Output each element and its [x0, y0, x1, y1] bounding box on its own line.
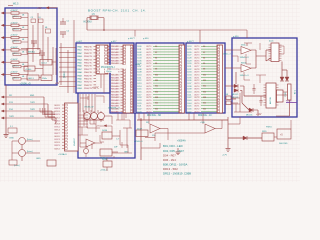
resistor R15 — [1, 59, 28, 68]
svg-text:D02/D4L - 10: D02/D4L - 10 — [198, 115, 212, 117]
svg-text:+130/47: +130/47 — [10, 59, 18, 61]
wire — [84, 110, 104, 120]
svg-text:TWR: TWR — [9, 116, 14, 118]
svg-text:+130/47: +130/47 — [10, 47, 18, 49]
module frame box F2 — [186, 43, 225, 113]
svg-text:OUT8: OUT8 — [146, 97, 152, 99]
junction — [103, 29, 142, 121]
svg-text:PB00/T0: PB00/T0 — [84, 47, 93, 49]
svg-text:OUT1: OUT1 — [194, 106, 200, 108]
wire — [225, 67, 232, 69]
wire — [87, 18, 90, 30]
svg-text:OUT8: OUT8 — [194, 97, 200, 99]
svg-text:1N54L+3: 1N54L+3 — [240, 57, 250, 59]
label MD001 c — [246, 115, 253, 117]
svg-text:+130/47: +130/47 — [10, 10, 18, 12]
label 20F — [114, 147, 118, 149]
svg-text:RB4/AN4: RB4/AN4 — [111, 85, 120, 88]
svg-text:[Intro]: [Intro] — [27, 138, 33, 141]
sheet port p.030 — [143, 38, 149, 40]
component 0D1F — [134, 128, 148, 142]
svg-text:N16: N16 — [155, 91, 158, 93]
wire — [276, 100, 290, 116]
wire — [5, 85, 7, 134]
svg-text:D06+: D06+ — [241, 45, 247, 47]
module frame box G — [232, 38, 297, 117]
svg-text:OUT1: OUT1 — [194, 49, 200, 51]
svg-text:B2/C6: B2/C6 — [55, 142, 60, 144]
sheet port p.0077 — [128, 38, 135, 40]
label +5V3A — [58, 153, 68, 156]
svg-text:PB70/T1: PB70/T1 — [84, 50, 93, 52]
capacitor C9 — [253, 84, 256, 94]
svg-text:B8/C4: B8/C4 — [55, 130, 60, 132]
wire — [199, 30, 201, 43]
label D60 R6D — [279, 143, 288, 145]
svg-text:PB70/T1: PB70/T1 — [84, 82, 93, 84]
svg-text:C08: C08 — [225, 94, 228, 96]
wire — [100, 135, 104, 142]
svg-text:PB30/T9: PB30/T9 — [84, 75, 93, 77]
ground GND f — [222, 149, 231, 157]
svg-text:+50D: +50D — [200, 122, 206, 124]
svg-text:B0/C0: B0/C0 — [55, 105, 60, 107]
svg-text:PB00/T0: PB00/T0 — [84, 79, 93, 81]
wire — [282, 62, 287, 78]
svg-text:N6: N6 — [155, 63, 157, 65]
svg-text:PB60/T8: PB60/T8 — [84, 72, 93, 74]
svg-text:x1N4L+0: x1N4L+0 — [134, 141, 143, 143]
wire — [225, 85, 234, 87]
wire — [21, 145, 23, 162]
wire — [112, 145, 132, 153]
capacitor C10 — [260, 96, 263, 106]
svg-text:N12: N12 — [155, 80, 158, 82]
svg-text:N10: N10 — [203, 74, 206, 76]
wire — [140, 118, 142, 160]
label D06+ — [241, 45, 247, 47]
svg-text:+5V: +5V — [37, 7, 42, 10]
component 5.1 — [8, 126, 17, 133]
wire — [231, 98, 240, 103]
svg-text:OUT5: OUT5 — [146, 60, 152, 62]
svg-text:OV/4V+W: OV/4V+W — [84, 107, 93, 109]
svg-text:D60 R6D: D60 R6D — [279, 143, 288, 145]
svg-text:OUT0: OUT0 — [194, 75, 200, 77]
svg-text:OUT2: OUT2 — [194, 108, 200, 110]
svg-text:N6: N6 — [203, 63, 205, 65]
resistor R13 — [1, 35, 28, 44]
wire — [251, 67, 256, 69]
svg-text:DR13 - 5R2: DR13 - 5R2 — [163, 167, 178, 171]
component W0Ax — [27, 49, 40, 54]
resistor R21 — [225, 96, 231, 100]
value 1N54L+3 b — [240, 75, 250, 77]
svg-text:C3: C3 — [31, 17, 33, 19]
diode D10 — [243, 136, 247, 140]
op-amp U5A — [241, 47, 251, 55]
svg-text:OUT3: OUT3 — [194, 55, 200, 57]
svg-text:+130/x: +130/x — [25, 69, 32, 71]
svg-text:OUT1: OUT1 — [146, 106, 152, 108]
svg-text:B5/C5: B5/C5 — [55, 120, 60, 122]
svg-text:D03E: D03E — [102, 130, 108, 132]
wire — [276, 92, 288, 95]
svg-text:OUT1: OUT1 — [194, 77, 200, 79]
wire — [27, 13, 29, 75]
svg-text:+5V3A+D: +5V3A+D — [58, 153, 68, 156]
svg-text:PB40/T2: PB40/T2 — [84, 53, 93, 55]
svg-text:[Intro]: [Intro] — [27, 150, 33, 153]
sheet port p.030b — [233, 36, 239, 38]
svg-text:RB3/AN3: RB3/AN3 — [111, 54, 120, 57]
svg-text:B7/C1: B7/C1 — [55, 127, 60, 129]
svg-text:OUT2: OUT2 — [146, 52, 152, 54]
wire — [244, 43, 252, 46]
svg-text:OUT5: OUT5 — [146, 89, 152, 91]
wire — [225, 49, 232, 51]
value label 1.5 — [92, 14, 96, 16]
wire — [96, 96, 130, 128]
op-amp U5B — [241, 65, 251, 73]
svg-text:OUT0: OUT0 — [146, 75, 152, 77]
ground GND — [4, 135, 15, 140]
svg-text:N18: N18 — [203, 97, 206, 99]
power +9V — [55, 82, 60, 85]
svg-text:1584L+3: 1584L+3 — [223, 54, 232, 56]
svg-text:N20: N20 — [203, 103, 206, 105]
component GB1.5 — [27, 75, 39, 80]
svg-text:PB20/T6: PB20/T6 — [84, 66, 93, 68]
svg-text:CH0x: CH0x — [106, 71, 112, 73]
wire — [118, 113, 126, 120]
svg-text:+1N54L+D: +1N54L+D — [20, 83, 31, 85]
IC U2 body — [123, 45, 133, 113]
wire — [80, 103, 118, 152]
svg-text:1N54L+3: 1N54L+3 — [240, 75, 250, 77]
svg-text:OUT7: OUT7 — [194, 94, 200, 96]
svg-text:N14: N14 — [155, 86, 158, 88]
purple net Reset — [286, 99, 297, 102]
op-amp stage A3 — [98, 111, 105, 119]
value label HC49U — [84, 21, 93, 23]
svg-text:OUT6: OUT6 — [194, 63, 200, 65]
svg-text:B01, D03 - LED: B01, D03 - LED — [163, 144, 183, 148]
svg-text:OUT0: OUT0 — [146, 103, 152, 105]
svg-text:[W0Ax]: [W0Ax] — [28, 50, 35, 53]
svg-text:RB1/AN1: RB1/AN1 — [111, 76, 120, 79]
component 1N4x — [41, 75, 52, 81]
svg-text:RB0/AN0: RB0/AN0 — [111, 45, 120, 48]
svg-text:p.0077: p.0077 — [187, 41, 194, 43]
svg-text:OUT7: OUT7 — [194, 66, 200, 68]
power +5V d — [84, 107, 93, 109]
wire — [246, 54, 251, 64]
wire — [215, 120, 222, 129]
svg-text:p.0077: p.0077 — [128, 38, 135, 40]
IC U8 body — [65, 103, 79, 151]
svg-text:B3/C9: B3/C9 — [55, 114, 60, 116]
power +5V — [37, 7, 57, 10]
IC U1 body — [96, 45, 110, 93]
capacitor C1a — [31, 17, 36, 23]
wire — [227, 117, 229, 148]
label T-0B — [293, 90, 295, 95]
wire — [232, 67, 241, 69]
svg-text:+12V: +12V — [256, 114, 262, 116]
wire — [145, 133, 155, 141]
wire — [234, 93, 252, 112]
wire bundle into U1 — [59, 48, 76, 87]
component J3 — [9, 160, 17, 165]
svg-text:B08, DR11 - 16V5A: B08, DR11 - 16V5A — [163, 162, 187, 166]
wire — [79, 127, 89, 135]
svg-text:+130/47: +130/47 — [10, 22, 18, 24]
svg-text:OUT2: OUT2 — [146, 108, 152, 110]
svg-text:OUT7: OUT7 — [146, 66, 152, 68]
wire — [52, 47, 54, 75]
svg-text:B0/C0: B0/C0 — [55, 136, 60, 138]
transistor Q2 — [19, 150, 41, 157]
connector J2 body — [277, 90, 284, 102]
svg-text:W1.5: W1.5 — [13, 4, 19, 6]
svg-text:D02, D05 - 1N47: D02, D05 - 1N47 — [163, 149, 184, 153]
svg-text:RB1/AN1: RB1/AN1 — [111, 48, 120, 51]
sheet port p.007 — [77, 41, 83, 43]
svg-text:RB6/AN6: RB6/AN6 — [111, 90, 120, 93]
svg-text:OUT4: OUT4 — [146, 86, 152, 88]
IC U1 pin labels — [78, 46, 97, 91]
sheet port p.017 — [111, 41, 117, 43]
component W5D — [262, 131, 274, 141]
op-amp stage A2 — [91, 111, 98, 119]
svg-text:GB1.5: GB1.5 — [28, 78, 35, 80]
wire — [84, 112, 104, 132]
net row R14 — [1, 109, 55, 120]
wire bundle — [80, 94, 95, 112]
regulator VR01 body — [288, 84, 292, 100]
svg-text:OUT0: OUT0 — [194, 103, 200, 105]
svg-text:HC49/U: HC49/U — [84, 21, 93, 23]
module frame box F — [136, 43, 184, 113]
wire — [90, 116, 96, 124]
svg-text:TWR: TWR — [30, 109, 35, 111]
capacitor C1c — [45, 27, 51, 33]
svg-text:0D1F: 0D1F — [137, 128, 143, 130]
wire — [114, 142, 122, 158]
wire — [35, 69, 43, 78]
wire — [155, 132, 205, 134]
wire — [253, 110, 258, 116]
svg-text:D04 - R07: D04 - R07 — [163, 153, 176, 157]
net label D02/D4L — [198, 115, 212, 117]
label CH6y — [135, 64, 140, 66]
svg-text:OUT2: OUT2 — [146, 80, 152, 82]
svg-text:N8: N8 — [155, 69, 157, 71]
resistor R11 — [1, 10, 28, 19]
svg-text:PB80/T4: PB80/T4 — [84, 59, 93, 61]
IC U4 pin labels and wires — [188, 46, 218, 113]
svg-text:OUT1: OUT1 — [146, 49, 152, 51]
svg-text:RB7/AN7: RB7/AN7 — [111, 93, 120, 96]
IC U6 body — [269, 43, 282, 62]
svg-text:W5D: W5D — [262, 131, 267, 133]
IC U2 part label — [100, 65, 127, 73]
ground GND e — [176, 148, 181, 155]
svg-text:N12: N12 — [203, 80, 206, 82]
wire — [279, 46, 284, 54]
capacitor C2 — [31, 41, 37, 47]
svg-text:OUT9: OUT9 — [146, 72, 152, 74]
svg-text:GND: GND — [9, 138, 14, 140]
component D03E — [102, 130, 112, 139]
svg-text:RB5/AN5: RB5/AN5 — [111, 59, 120, 62]
svg-text:+8 PIC: +8 PIC — [92, 87, 99, 89]
power +12V — [256, 114, 262, 116]
svg-text:RB0/AN0: RB0/AN0 — [111, 74, 120, 77]
svg-text:p.017: p.017 — [111, 41, 117, 43]
wire — [246, 30, 248, 38]
wire — [251, 50, 256, 68]
op-amp stage A1 — [84, 111, 91, 119]
resistor R16 — [1, 72, 28, 81]
component PW01 — [266, 126, 291, 139]
wire — [141, 143, 160, 148]
svg-text:T-0B: T-0B — [293, 90, 295, 95]
wire — [256, 43, 266, 83]
svg-text:GND: GND — [36, 158, 41, 160]
IC U7 label — [269, 97, 272, 104]
wire — [80, 96, 88, 100]
wire staircase extra — [40, 108, 55, 117]
resistor R12 — [1, 22, 28, 31]
capacitor C1b — [38, 17, 43, 23]
wire — [73, 20, 75, 93]
wire — [37, 13, 39, 50]
resistor R22 — [225, 94, 232, 104]
diode labels — [232, 94, 239, 99]
op-amp A6 — [200, 122, 215, 133]
module frame box D — [78, 93, 135, 158]
wire bundle U8 feed — [79, 115, 89, 127]
svg-text:OUT3: OUT3 — [146, 111, 152, 113]
svg-text:D06 - 1N4: D06 - 1N4 — [163, 158, 176, 162]
svg-text:RB6/AN6: RB6/AN6 — [111, 62, 120, 65]
svg-text:MD021: MD021 — [232, 94, 239, 96]
label B06D — [241, 63, 247, 65]
ground GND d — [124, 152, 129, 154]
wire — [80, 142, 102, 144]
wire — [160, 129, 168, 141]
wire — [47, 37, 49, 62]
svg-text:OUT4: OUT4 — [194, 58, 200, 60]
label Intro Q2 — [27, 150, 33, 153]
svg-text:N22: N22 — [155, 108, 158, 110]
svg-text:N0: N0 — [203, 46, 205, 48]
title text — [88, 8, 146, 12]
svg-text:PIC16F870-I: PIC16F870-I — [101, 66, 115, 69]
svg-text:+5V: +5V — [96, 126, 100, 128]
op-amp A5 — [146, 122, 160, 137]
svg-text:ADC0B: ADC0B — [269, 97, 272, 104]
value 1N54L+3 — [240, 57, 250, 59]
resistor R14 — [1, 47, 28, 56]
svg-text:N8: N8 — [203, 69, 205, 71]
IC U7 body — [264, 83, 279, 108]
wire — [112, 130, 120, 145]
wire — [228, 137, 262, 139]
svg-text:PB10/T3: PB10/T3 — [84, 56, 93, 58]
capacitor C5b — [60, 31, 70, 39]
svg-text:N10: N10 — [155, 74, 158, 76]
component C01F — [99, 149, 112, 160]
svg-text:TWR: TWR — [30, 102, 35, 104]
wire — [240, 90, 249, 110]
wire — [139, 113, 149, 124]
svg-text:OUT2: OUT2 — [194, 80, 200, 82]
module frame box A — [5, 8, 57, 85]
wire — [228, 117, 240, 124]
diode D7 — [280, 77, 284, 81]
svg-text:N22: N22 — [203, 108, 206, 110]
svg-text:OUT8: OUT8 — [146, 69, 152, 71]
svg-text:N4: N4 — [155, 57, 157, 59]
svg-text:B3/C9: B3/C9 — [55, 145, 60, 147]
svg-text:B4/C2: B4/C2 — [55, 148, 60, 150]
svg-text:OUT4: OUT4 — [146, 58, 152, 60]
diode D8 — [285, 77, 289, 81]
wire — [98, 18, 104, 30]
net row W1 — [1, 95, 55, 114]
svg-text:OUT9: OUT9 — [194, 100, 200, 102]
svg-text:+130/47: +130/47 — [10, 35, 18, 37]
net row R13 — [1, 102, 55, 117]
transistor Q3 — [84, 145, 89, 157]
component +130/x — [24, 66, 35, 71]
svg-text:PB90/T7: PB90/T7 — [84, 69, 93, 71]
wire — [100, 126, 112, 132]
label C.T — [116, 139, 120, 141]
transistor Q1 — [19, 138, 41, 145]
svg-text:GND: GND — [124, 152, 129, 154]
svg-text:+9V: +9V — [55, 82, 60, 85]
svg-text:N16: N16 — [203, 91, 206, 93]
svg-text:OUT2: OUT2 — [194, 52, 200, 54]
wire — [87, 29, 247, 31]
svg-text:1N4007: 1N4007 — [74, 138, 76, 146]
crystal X1 — [90, 16, 98, 21]
svg-text:+130/47: +130/47 — [10, 72, 18, 74]
wire — [189, 113, 203, 124]
label dash — [269, 41, 274, 43]
net label Intro v — [63, 71, 66, 78]
label 1584L+3 — [223, 54, 232, 56]
svg-text:p.007: p.007 — [77, 41, 83, 43]
net label bottom — [20, 83, 31, 85]
svg-text:BOOST RPM-CH. 2101. CH. 14.: BOOST RPM-CH. 2101. CH. 14. — [88, 8, 146, 12]
svg-text:DR15 - 1N5819 .C0B9: DR15 - 1N5819 .C0B9 — [163, 172, 191, 176]
svg-text:OUT3: OUT3 — [146, 83, 152, 85]
wire — [12, 141, 19, 160]
power +8 PIC — [92, 87, 99, 89]
wire — [116, 114, 130, 121]
wire — [240, 86, 266, 96]
capacitor C4b — [60, 18, 70, 24]
svg-text:OUT7: OUT7 — [146, 94, 152, 96]
svg-text:N0: N0 — [155, 46, 157, 48]
wire — [60, 43, 62, 85]
svg-text:OUT3: OUT3 — [194, 83, 200, 85]
